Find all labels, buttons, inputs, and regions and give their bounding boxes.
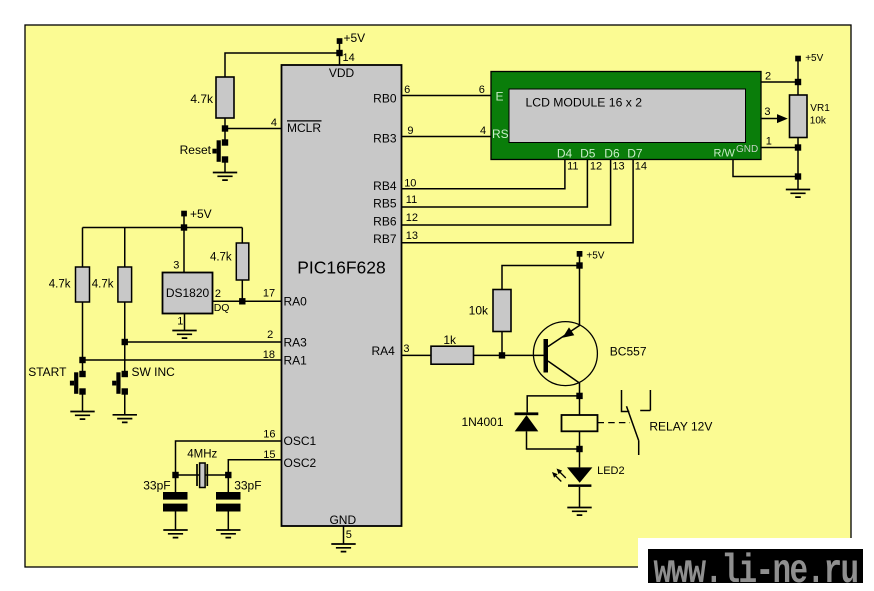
wire diode to LED node bbox=[527, 431, 580, 449]
svg-text:www.li-ne.ru: www.li-ne.ru bbox=[653, 548, 857, 591]
wire bus to DS1820 pin 3 bbox=[183, 228, 185, 273]
ground (Reset) bbox=[213, 173, 237, 181]
svg-text:DS1820: DS1820 bbox=[166, 286, 210, 300]
wire LCD R/W to ground net bbox=[733, 160, 798, 177]
ground (PIC GND) bbox=[331, 544, 355, 552]
svg-text:17: 17 bbox=[263, 288, 275, 300]
svg-text:3: 3 bbox=[764, 106, 770, 118]
svg-text:+5V: +5V bbox=[586, 250, 604, 261]
svg-text:2: 2 bbox=[765, 70, 771, 82]
wire OSC1 bbox=[176, 441, 282, 475]
svg-text:SW INC: SW INC bbox=[132, 365, 176, 379]
white patch corner bbox=[638, 538, 874, 591]
junction R/W node bbox=[795, 173, 801, 179]
wire bus to R4 bbox=[241, 228, 243, 244]
svg-text:14: 14 bbox=[343, 52, 355, 64]
svg-text:BC557: BC557 bbox=[610, 344, 647, 358]
resistor R2 4.7k bbox=[49, 267, 90, 302]
svg-text:GND: GND bbox=[736, 144, 758, 155]
svg-text:RA4: RA4 bbox=[371, 344, 395, 358]
wire DS1820 pin 1 to ground bbox=[184, 314, 186, 331]
svg-text:D6: D6 bbox=[604, 147, 620, 161]
wire SW INC to ground bbox=[124, 392, 126, 415]
diode D1 1N4001 bbox=[461, 412, 538, 431]
svg-text:12: 12 bbox=[406, 212, 418, 224]
junction collector node bbox=[576, 393, 582, 399]
wire collector to diode bbox=[527, 396, 579, 413]
wire R3 to SW INC bbox=[124, 302, 126, 374]
svg-text:6: 6 bbox=[479, 84, 485, 96]
svg-text:2: 2 bbox=[215, 288, 221, 300]
junction bbox=[336, 50, 342, 56]
node +5V (sensor bus) bbox=[181, 207, 211, 221]
wire OSC2 bbox=[228, 460, 281, 475]
svg-text:10k: 10k bbox=[810, 115, 827, 126]
svg-text:12: 12 bbox=[590, 161, 602, 173]
pin 5 stem and label bbox=[344, 526, 352, 544]
junction XT1 right bbox=[225, 472, 231, 478]
potentiometer VR1 10k bbox=[790, 95, 831, 138]
wire LCD pin 2 to +5V bbox=[761, 81, 798, 83]
svg-text:4.7k: 4.7k bbox=[92, 278, 114, 290]
wire +5V down to VR1 bbox=[797, 59, 799, 96]
svg-text:1k: 1k bbox=[443, 333, 457, 347]
svg-text:11: 11 bbox=[406, 194, 417, 206]
svg-text:1N4001: 1N4001 bbox=[461, 415, 503, 429]
wire bus to R3 bbox=[124, 228, 126, 268]
svg-text:3: 3 bbox=[173, 259, 179, 271]
svg-text:VDD: VDD bbox=[329, 66, 355, 80]
svg-text:PIC16F628: PIC16F628 bbox=[297, 258, 386, 278]
wire collector down bbox=[579, 383, 581, 415]
svg-text:4MHz: 4MHz bbox=[187, 448, 217, 460]
svg-text:OSC2: OSC2 bbox=[284, 456, 317, 470]
ground (SW INC) bbox=[113, 415, 137, 423]
relay contact switch bbox=[622, 390, 651, 455]
ground (LED2) bbox=[567, 508, 591, 516]
junction MCLR node bbox=[222, 125, 228, 131]
svg-text:6: 6 bbox=[404, 84, 410, 96]
svg-text:13: 13 bbox=[612, 161, 624, 173]
svg-text:10k: 10k bbox=[469, 303, 489, 317]
pin label MCLR with overline bbox=[287, 121, 322, 135]
wire bus to R2 bbox=[82, 228, 84, 268]
wire R1 to MCLR node bbox=[224, 118, 226, 143]
svg-text:3: 3 bbox=[403, 343, 409, 355]
wire +5V branch to R1 bbox=[225, 53, 340, 77]
wire RB3 to LCD RS bbox=[402, 136, 492, 138]
svg-text:4.7k: 4.7k bbox=[210, 252, 232, 264]
wire to 10k bbox=[502, 266, 580, 290]
wiper arrow bbox=[777, 114, 788, 123]
svg-text:15: 15 bbox=[263, 449, 275, 461]
ground (C1) bbox=[163, 530, 187, 538]
svg-text:5: 5 bbox=[346, 529, 352, 541]
svg-text:Reset: Reset bbox=[180, 143, 212, 157]
svg-text:18: 18 bbox=[263, 349, 275, 361]
svg-text:VR1: VR1 bbox=[810, 103, 830, 114]
junction LED node bbox=[576, 446, 582, 452]
resistor R5 10k bbox=[469, 290, 511, 332]
capacitor C2 33pF bbox=[216, 475, 262, 530]
ground (DS1820) bbox=[172, 331, 196, 339]
svg-text:RB7: RB7 bbox=[373, 232, 397, 246]
LCD module U2 bbox=[491, 72, 761, 160]
svg-text:LCD MODULE 16 x 2: LCD MODULE 16 x 2 bbox=[526, 96, 643, 110]
wire Reset to ground bbox=[224, 160, 226, 173]
pushbutton START bbox=[28, 365, 86, 395]
svg-text:RB0: RB0 bbox=[373, 92, 397, 106]
ground (C2) bbox=[216, 530, 240, 538]
svg-text:RB6: RB6 bbox=[373, 214, 397, 228]
wire RB0 to LCD E bbox=[402, 95, 492, 97]
svg-text:11: 11 bbox=[567, 161, 578, 173]
svg-text:RA0: RA0 bbox=[284, 295, 308, 309]
svg-text:RB5: RB5 bbox=[373, 197, 397, 211]
wire RA4 to R6 bbox=[402, 354, 432, 356]
svg-text:OSC1: OSC1 bbox=[284, 434, 317, 448]
wire +5V stem bbox=[183, 214, 185, 228]
junction pin2 node bbox=[795, 79, 801, 85]
wire VR1 to ground bbox=[797, 138, 799, 190]
junction pin1 node bbox=[795, 144, 801, 150]
svg-text:9: 9 bbox=[407, 125, 413, 137]
node +5V (transistor) bbox=[577, 250, 605, 261]
svg-text:14: 14 bbox=[635, 161, 647, 173]
LED LED2 bbox=[552, 465, 625, 487]
svg-text:10: 10 bbox=[404, 178, 416, 190]
svg-text:RB3: RB3 bbox=[373, 132, 397, 146]
svg-text:R/W: R/W bbox=[714, 148, 736, 160]
svg-text:+5V: +5V bbox=[344, 31, 366, 45]
svg-text:4: 4 bbox=[480, 125, 486, 137]
ground (START) bbox=[70, 412, 94, 420]
svg-text:DQ: DQ bbox=[214, 302, 230, 314]
junction RA3/SW INC bbox=[122, 339, 128, 345]
wire RA3 bbox=[125, 341, 282, 343]
wire +5V to VDD pin 14 bbox=[339, 41, 341, 65]
wire RB5 to LCD D5 (pin 12) bbox=[402, 160, 588, 207]
wire +5V bus bbox=[83, 227, 243, 229]
resistor R1 4.7k (MCLR pull-up) bbox=[190, 77, 234, 118]
dashed actuator link bbox=[598, 422, 631, 424]
wire R6 to base bbox=[474, 354, 544, 356]
wire LED to ground bbox=[579, 487, 581, 508]
junction XT1 left bbox=[172, 472, 178, 478]
svg-text:MCLR: MCLR bbox=[287, 121, 321, 135]
junction base node bbox=[499, 352, 505, 358]
wire 10k to base node bbox=[501, 332, 503, 356]
svg-text:16: 16 bbox=[263, 429, 275, 441]
wire RA1 bbox=[83, 359, 282, 361]
junction DQ node bbox=[239, 298, 245, 304]
wire R4 to DQ bbox=[241, 280, 243, 301]
svg-text:RB4: RB4 bbox=[373, 179, 397, 193]
svg-text:+5V: +5V bbox=[190, 207, 212, 221]
wire LCD pin 3 to VR1 wiper bbox=[761, 118, 778, 120]
wire coil to LED node bbox=[579, 431, 581, 467]
svg-text:RA3: RA3 bbox=[284, 336, 308, 350]
svg-text:GND: GND bbox=[329, 513, 356, 527]
svg-text:LED2: LED2 bbox=[597, 465, 625, 477]
svg-text:4: 4 bbox=[271, 117, 277, 129]
junction RA1/START bbox=[79, 357, 85, 363]
capacitor C1 33pF bbox=[143, 475, 187, 530]
watermark www.li-ne.ru bbox=[648, 548, 863, 591]
resistor R3 4.7k bbox=[92, 267, 132, 302]
svg-text:4.7k: 4.7k bbox=[49, 278, 71, 290]
svg-text:E: E bbox=[496, 90, 504, 104]
junction bus bbox=[181, 224, 187, 230]
svg-text:4.7k: 4.7k bbox=[190, 92, 214, 106]
svg-text:1: 1 bbox=[177, 316, 183, 328]
svg-text:13: 13 bbox=[406, 230, 418, 242]
svg-text:+5V: +5V bbox=[805, 53, 823, 64]
transistor Q1 BC557 bbox=[533, 322, 646, 386]
svg-text:D4: D4 bbox=[557, 147, 573, 161]
pushbutton SW INC bbox=[112, 365, 175, 395]
svg-text:D5: D5 bbox=[580, 147, 596, 161]
wire RB6 to LCD D6 (pin 13) bbox=[402, 160, 611, 225]
node +5V (MCLR pull-up) bbox=[337, 31, 365, 45]
svg-text:RELAY 12V: RELAY 12V bbox=[649, 420, 712, 434]
wire R2 to START bbox=[82, 302, 84, 374]
svg-text:RA1: RA1 bbox=[284, 354, 308, 368]
svg-text:1: 1 bbox=[766, 136, 772, 148]
pushbutton Reset bbox=[180, 139, 229, 162]
svg-text:RS: RS bbox=[492, 127, 509, 141]
svg-text:33pF: 33pF bbox=[234, 478, 261, 492]
resistor R6 1k bbox=[431, 333, 474, 364]
wire START to ground bbox=[82, 392, 84, 412]
relay coil K1 bbox=[562, 415, 598, 431]
sensor U3 DS1820 bbox=[163, 273, 213, 314]
wire crystal link bbox=[176, 474, 229, 476]
wire RB4 to LCD D4 (pin 11) bbox=[402, 160, 565, 189]
ground (VR1) bbox=[786, 190, 810, 198]
op-amp U1 PIC16F628 body bbox=[282, 65, 402, 527]
resistor R4 4.7k (DQ pull-up) bbox=[210, 243, 249, 280]
svg-text:2: 2 bbox=[267, 329, 273, 341]
wire LCD pin 1 bbox=[761, 147, 798, 149]
wire MCLR to PIC pin 4 bbox=[225, 128, 282, 130]
wire DQ to PIC RA0 bbox=[213, 300, 282, 302]
node +5V (VR1) bbox=[795, 53, 823, 64]
svg-text:D7: D7 bbox=[627, 147, 643, 161]
wire RB7 to LCD D7 (pin 14) bbox=[402, 160, 634, 243]
wire +5V to emitter bbox=[579, 254, 581, 326]
svg-text:33pF: 33pF bbox=[143, 478, 170, 492]
crystal XT1 4MHz bbox=[187, 448, 217, 487]
junction 10k branch bbox=[576, 262, 582, 268]
svg-text:START: START bbox=[28, 365, 67, 379]
